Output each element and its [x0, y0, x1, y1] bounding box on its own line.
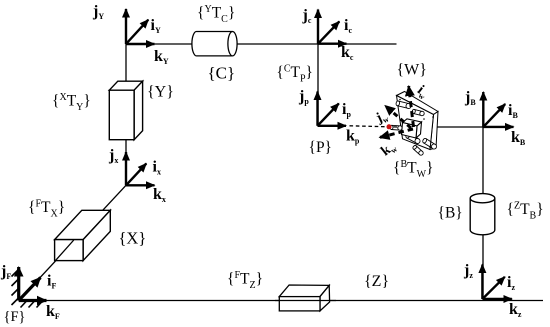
svg-text:{XTY}: {XTY}: [52, 92, 91, 113]
node: red contact dot: [387, 124, 392, 129]
dashed wire P to W: [350, 126, 410, 128]
svg-text:jx: jx: [108, 147, 118, 165]
frame {B} triad: [483, 92, 513, 127]
box X (hollow prismatic joint on diagonal link): [55, 210, 111, 261]
svg-text:jp: jp: [298, 88, 309, 106]
workpiece W plate: [397, 92, 439, 150]
svg-text:{Y}: {Y}: [147, 84, 174, 101]
frame {z} triad: [482, 265, 512, 300]
svg-text:{B}: {B}: [438, 205, 463, 222]
frame {F} triad (fixed base): [19, 267, 47, 301]
svg-text:jY: jY: [92, 3, 104, 21]
svg-text:{FTX}: {FTX}: [28, 199, 65, 220]
wire: bottom horizontal link F to z: [19, 300, 543, 302]
wire: bottom link passing across box Z: [275, 300, 336, 302]
cylinder C (joint between Y and c): [192, 32, 237, 56]
frame {Y} triad: [126, 9, 155, 44]
svg-text:kY: kY: [154, 48, 169, 66]
svg-text:jz: jz: [463, 262, 473, 280]
svg-text:kF: kF: [46, 303, 60, 321]
svg-text:jB: jB: [464, 89, 476, 107]
svg-text:{CTP}: {CTP}: [276, 64, 313, 85]
wire: vertical link Y frame down through box Y to frame x: [125, 44, 127, 185]
svg-text:{BTW}: {BTW}: [393, 159, 434, 180]
wire: top horizontal link Y to c: [126, 43, 397, 45]
ground hatching on F vertical axis: [12, 269, 20, 305]
box Y (prismatic joint on Y link): [109, 81, 142, 140]
wire: vertical link B to z through cylinder: [482, 127, 484, 299]
svg-text:kB: kB: [511, 129, 526, 147]
svg-text:ic: ic: [344, 17, 352, 35]
svg-text:iB: iB: [508, 102, 518, 120]
svg-text:ip: ip: [342, 101, 351, 119]
wire: horizontal link W to B: [436, 126, 483, 128]
svg-text:{C}: {C}: [208, 64, 236, 83]
svg-text:{X}: {X}: [119, 229, 147, 248]
svg-text:kx: kx: [153, 186, 166, 204]
svg-text:{P}: {P}: [309, 139, 333, 156]
svg-text:iz: iz: [507, 274, 515, 292]
svg-text:kz: kz: [509, 301, 522, 319]
svg-text:kc: kc: [341, 44, 354, 62]
svg-text:{FTZ}: {FTZ}: [227, 270, 263, 291]
svg-text:{F}: {F}: [4, 309, 26, 325]
svg-text:iY: iY: [151, 17, 161, 35]
wire: vertical link c to P: [317, 44, 319, 126]
svg-text:{YTC}: {YTC}: [197, 4, 235, 25]
svg-text:jF: jF: [0, 263, 11, 281]
frame {P} triad: [318, 92, 347, 126]
workpiece central boss: [402, 119, 422, 138]
rod visible through hollow opening: [55, 240, 74, 261]
frame {W} dashed axes: [380, 86, 414, 138]
ground hatching on F horizontal axis: [21, 301, 44, 308]
box Z (joint on bottom link): [275, 285, 336, 311]
frame {c} triad: [318, 10, 347, 44]
svg-text:{W}: {W}: [397, 62, 427, 79]
svg-text:kp: kp: [346, 128, 360, 146]
cylinder B (joint between B and z): [470, 194, 495, 235]
svg-text:{Z}: {Z}: [364, 273, 389, 290]
workpiece locating pins: [396, 101, 412, 110]
svg-text:ix: ix: [153, 159, 161, 177]
svg-text:iF: iF: [47, 273, 56, 291]
svg-text:kw: kw: [379, 139, 400, 160]
wire: diagonal link F to x: [19, 185, 126, 300]
svg-text:jc: jc: [302, 7, 312, 25]
frame {x} triad: [126, 152, 155, 185]
workpiece face dots: [399, 99, 434, 148]
svg-text:{ZTB}: {ZTB}: [507, 201, 544, 222]
